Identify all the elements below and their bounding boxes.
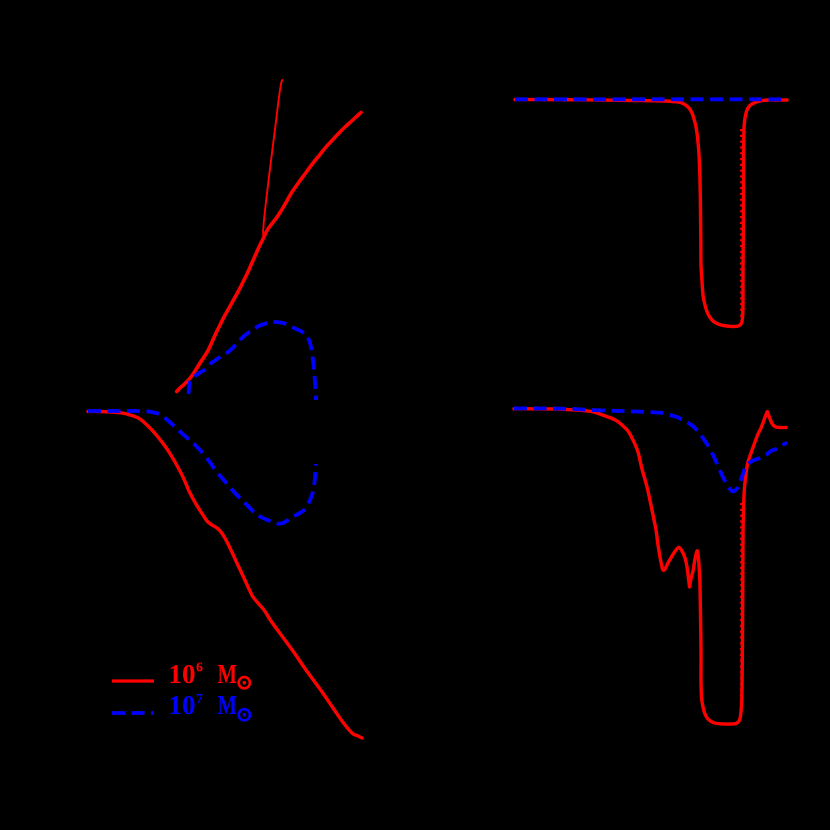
left panel: red 1e6 Msun lower track	[88, 411, 362, 738]
svg-text:6: 6	[196, 661, 203, 676]
top-right panel: blue dashed flat line	[515, 97, 788, 101]
left panel: red 1e6 Msun rising track	[177, 113, 361, 392]
legend: red label 10^6 Msun	[169, 659, 250, 689]
svg-text:10: 10	[169, 690, 196, 720]
top-right panel: red dotted vertical	[740, 129, 742, 319]
left panel: blue 1e7 Msun dashed main loop (flat + bottom arc + right rise)	[88, 411, 316, 524]
left panel: blue 1e7 Msun dashed loop top arc	[189, 322, 316, 400]
left panel: red thin branch	[263, 80, 282, 236]
legend: blue dashed sample line	[112, 711, 154, 715]
bottom-right panel: blue dashed curve	[514, 408, 787, 491]
svg-text:M: M	[218, 659, 238, 689]
svg-text:10: 10	[169, 659, 196, 689]
legend: blue label 10^7 Msun	[169, 690, 250, 720]
svg-text:7: 7	[196, 692, 203, 707]
bottom-right panel: red solid curve	[514, 409, 786, 724]
bottom-right panel: red dotted vertical	[740, 503, 742, 714]
svg-text:M: M	[218, 690, 238, 720]
legend: red solid sample line	[112, 679, 154, 682]
top-right panel: red solid absorption curve	[515, 100, 787, 327]
